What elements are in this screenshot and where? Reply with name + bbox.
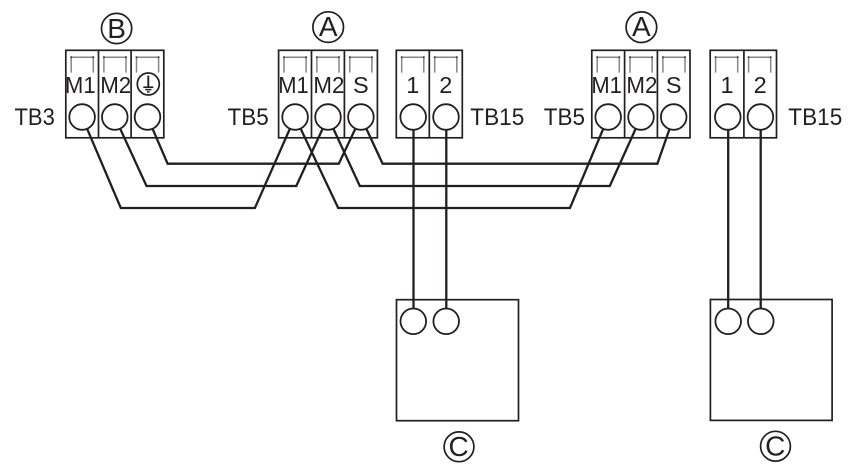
svg-text:TB5: TB5 xyxy=(544,104,585,131)
svg-text:M2: M2 xyxy=(626,72,657,98)
terminal block TB3 outline xyxy=(66,50,164,138)
wire TB15.2 to controller C (left) xyxy=(445,117,447,321)
node label C (remote controller, left) xyxy=(444,431,474,462)
TB15 right screw terminal 2 xyxy=(748,104,774,130)
node label A (indoor unit, left) xyxy=(313,11,344,43)
TB3 terminal clamp bracket M1 xyxy=(70,56,94,72)
TB5 left screw terminal M2 xyxy=(315,104,341,130)
svg-text:A: A xyxy=(632,11,651,42)
svg-text:S: S xyxy=(353,72,369,98)
TB5 left terminal clamp bracket M2 xyxy=(316,56,340,72)
svg-text:M1: M1 xyxy=(65,72,96,98)
svg-text:M2: M2 xyxy=(313,72,344,98)
TB15 right screw terminal 1 xyxy=(715,104,741,130)
svg-text:2: 2 xyxy=(754,72,767,98)
TB5 right terminal clamp bracket M2 xyxy=(629,56,653,72)
remote controller box C (right) xyxy=(710,300,832,421)
wire TB5.M2 to TB5right.M2 xyxy=(328,117,641,186)
TB15 left terminal clamp bracket 1 xyxy=(401,56,425,72)
TB5 right terminal clamp bracket S xyxy=(662,56,686,72)
svg-text:TB15: TB15 xyxy=(470,104,524,131)
TB5 right screw terminal M1 xyxy=(595,104,621,130)
wire TB5.S to TB5right.S xyxy=(361,117,674,164)
TB5 left screw terminal M1 xyxy=(282,104,308,130)
svg-text:TB5: TB5 xyxy=(228,104,269,131)
TB5 left terminal clamp bracket M1 xyxy=(283,56,307,72)
svg-text:1: 1 xyxy=(721,72,734,98)
controller C right terminal 2 xyxy=(748,309,774,335)
controller C left terminal 2 xyxy=(433,309,459,335)
svg-text:A: A xyxy=(319,11,338,42)
terminal block TB5 (right) outline xyxy=(592,50,690,138)
svg-text:B: B xyxy=(107,13,126,44)
wire TB15right.2 to controller C (right) xyxy=(760,117,762,321)
TB3 screw terminal M1 xyxy=(69,104,95,130)
TB15 right terminal clamp bracket 2 xyxy=(748,56,772,72)
svg-text:S: S xyxy=(666,72,682,98)
svg-text:2: 2 xyxy=(439,72,452,98)
wire TB3.earth to TB5.S xyxy=(148,117,361,164)
svg-text:TB3: TB3 xyxy=(15,104,55,131)
wire TB3.M2 to TB5.M2 xyxy=(115,117,328,186)
wire TB15right.1 to controller C (right) xyxy=(727,117,729,321)
TB5 right terminal clamp bracket M1 xyxy=(596,56,620,72)
TB5 left screw terminal S xyxy=(348,104,374,130)
remote controller box C (left) xyxy=(397,300,519,421)
TB3 terminal clamp bracket M2 xyxy=(103,56,127,72)
TB3 terminal clamp bracket earth xyxy=(136,56,160,72)
wire TB5.M1 to TB5right.M1 xyxy=(295,117,608,208)
TB5 left terminal clamp bracket S xyxy=(349,56,373,72)
node label B (outdoor unit) xyxy=(102,13,132,44)
controller C left terminal 1 xyxy=(401,309,427,335)
TB5 right screw terminal S xyxy=(661,104,687,130)
TB15 left screw terminal 1 xyxy=(400,104,426,130)
TB3 screw terminal earth xyxy=(135,104,161,130)
TB5 right screw terminal M2 xyxy=(628,104,654,130)
svg-text:1: 1 xyxy=(406,72,419,98)
svg-text:TB15: TB15 xyxy=(788,104,842,131)
svg-text:M1: M1 xyxy=(591,72,622,98)
TB3 protective earth symbol xyxy=(137,73,159,95)
terminal block TB5 (left) outline xyxy=(279,50,378,138)
svg-text:M1: M1 xyxy=(278,72,309,98)
TB15 left terminal clamp bracket 2 xyxy=(434,56,458,72)
wire TB15.1 to controller C (left) xyxy=(412,117,414,321)
svg-text:C: C xyxy=(448,431,468,462)
controller C right terminal 1 xyxy=(715,309,741,335)
TB15 left screw terminal 2 xyxy=(433,104,459,130)
node label A (indoor unit, right) xyxy=(626,11,657,43)
TB3 screw terminal M2 xyxy=(102,104,128,130)
svg-text:C: C xyxy=(765,431,785,462)
TB15 right terminal clamp bracket 1 xyxy=(715,56,739,72)
terminal block TB15 (right) outline xyxy=(710,50,776,138)
svg-text:M2: M2 xyxy=(100,72,131,98)
terminal block TB15 (left) outline xyxy=(396,50,462,138)
wire TB3.M1 to TB5.M1 xyxy=(82,117,295,208)
node label C (remote controller, right) xyxy=(761,431,791,462)
